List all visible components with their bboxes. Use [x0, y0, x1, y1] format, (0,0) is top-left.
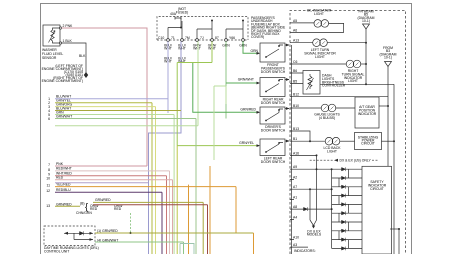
pin wire A9 — [290, 168, 332, 170]
gauge lights — [294, 104, 355, 112]
indicators note — [290, 246, 308, 248]
wire row7 PNK — [55, 165, 147, 167]
wire row10 RED — [55, 180, 173, 254]
under-dash fuse/relay box (dashed) — [157, 17, 248, 41]
svg-text:(4 BULBS): (4 BULBS) — [319, 116, 335, 120]
svg-text:RED/WHT: RED/WHT — [56, 167, 72, 171]
svg-text:13: 13 — [46, 204, 50, 208]
wire GRN to front passenger door switch — [243, 41, 259, 53]
svg-text:7: 7 — [48, 163, 50, 167]
wire GRN/RED dashed drop — [130, 213, 132, 233]
right rear door switch — [260, 78, 285, 97]
svg-text:40A: 40A — [170, 12, 177, 16]
svg-text:A4: A4 — [293, 216, 297, 220]
svg-text:CHN/GRN: CHN/GRN — [76, 211, 92, 215]
wire row5 GRN — [55, 115, 174, 254]
svg-text:7J: 7J — [200, 36, 204, 40]
svg-text:C6: C6 — [293, 60, 297, 64]
washer fluid level sensor — [43, 25, 62, 46]
pin wire A2 — [290, 188, 332, 190]
svg-text:12: 12 — [46, 189, 50, 193]
svg-text:71: 71 — [171, 36, 175, 40]
svg-text:BLK: BLK — [79, 54, 86, 58]
wire lavender branch — [55, 182, 149, 184]
wire PNK from sensor pin 2 — [62, 28, 147, 166]
svg-text:DX & EX (US) ONLY: DX & EX (US) ONLY — [340, 159, 372, 163]
svg-text:GRN/RED: GRN/RED — [240, 108, 256, 112]
diode D1 — [80, 231, 84, 235]
wire GRN/YEL to left rear door switch — [177, 41, 259, 145]
svg-text:RED: RED — [114, 207, 122, 211]
svg-text:B13: B13 — [293, 127, 299, 131]
wire ORN/RED branch — [93, 205, 208, 254]
svg-text:10-1): 10-1) — [362, 19, 370, 23]
wire GRN/WHT down to extra row — [197, 41, 199, 125]
wire bus from door switches down left of cluster — [291, 45, 293, 254]
svg-text:C10: C10 — [158, 36, 164, 40]
wire row2 GRN/YEL — [55, 103, 152, 254]
svg-text:GRN/RED: GRN/RED — [95, 198, 111, 202]
label DX & EX (US) only — [310, 159, 378, 161]
wire ORN vertical mid — [188, 185, 190, 254]
svg-text:FUSED): FUSED) — [176, 10, 189, 14]
svg-text:A9: A9 — [293, 165, 297, 169]
funnel to DX and EX models — [310, 155, 317, 227]
svg-text:CIRCUIT: CIRCUIT — [370, 187, 384, 191]
svg-text:8: 8 — [48, 168, 50, 172]
wire safety to bus — [390, 228, 399, 230]
wire row3 GRN/ORG — [55, 107, 156, 254]
svg-text:LIGHT: LIGHT — [314, 12, 324, 16]
front passenger's door switch — [260, 43, 285, 62]
svg-text:DOOR SWITCH: DOOR SWITCH — [261, 101, 286, 105]
diode array bus — [331, 169, 333, 248]
svg-text:B5: B5 — [293, 80, 297, 84]
wire GRN box bottom — [180, 244, 194, 254]
wire row12 RED/BLU — [55, 192, 162, 254]
svg-text:10: 10 — [46, 177, 50, 181]
wire BLU/WHT conn 71 down to row 1 — [167, 41, 169, 113]
svg-text:PNK: PNK — [56, 162, 64, 166]
svg-text:WHT: WHT — [178, 47, 186, 51]
svg-text:SENSOR: SENSOR — [42, 56, 57, 60]
wire GRN/WHT from DRL pin 4 — [95, 242, 184, 254]
pin wire A7 with diode — [290, 208, 332, 210]
A/T gear position indicator — [355, 97, 379, 128]
cluster pin stubs — [290, 23, 294, 141]
svg-text:LIGHT: LIGHT — [348, 79, 358, 83]
wire from A/T gear box right — [379, 105, 388, 107]
svg-text:INDICATOR: INDICATOR — [358, 112, 377, 116]
svg-text:MODELS: MODELS — [307, 233, 322, 237]
svg-text:GRN/YEL: GRN/YEL — [239, 141, 254, 145]
driver's door switch — [260, 107, 285, 124]
svg-text:A1: A1 — [293, 196, 297, 200]
svg-text:A10: A10 — [293, 236, 299, 240]
wire from FR BEAM triangle — [365, 29, 367, 84]
wire GRN/RED to driver door switch — [193, 63, 259, 113]
safety indicator circuit — [362, 166, 392, 254]
wire ORN vertical mid2 — [209, 166, 211, 254]
svg-text:Y66: Y66 — [229, 36, 235, 40]
svg-text:B1: B1 — [293, 137, 297, 141]
svg-text:GRN: GRN — [250, 49, 258, 53]
wire row8 RED/WHT — [55, 171, 170, 254]
splice S105 / ground G101 diamond — [84, 72, 88, 78]
wire GRN to right rear door switch — [226, 82, 259, 84]
svg-text:A8: A8 — [293, 205, 297, 209]
wire GRN/YEL branch down — [176, 146, 178, 254]
svg-text:10-1): 10-1) — [384, 56, 392, 60]
svg-text:RED/BLU: RED/BLU — [56, 188, 71, 192]
fuse box internal wires — [168, 18, 243, 39]
svg-text:DOOR SWITCH: DOOR SWITCH — [261, 128, 286, 132]
svg-text:A2: A2 — [293, 176, 297, 180]
svg-text:LIGHT: LIGHT — [315, 55, 325, 59]
svg-text:6: 6 — [48, 117, 50, 121]
left rear door switch — [260, 139, 285, 156]
svg-text:1 BLK: 1 BLK — [63, 39, 73, 43]
svg-text:B6: B6 — [293, 69, 297, 73]
right turn signal indicator light — [294, 60, 366, 68]
svg-text:INDICATORS:: INDICATORS: — [294, 249, 316, 253]
svg-text:GRN/RED: GRN/RED — [56, 202, 72, 206]
left turn signal indicator light — [294, 39, 366, 47]
lcd backlight — [294, 137, 355, 145]
wire row9 WHT/RED — [55, 176, 167, 254]
dash lights brightness controller — [294, 71, 394, 95]
svg-text:87: 87 — [215, 36, 219, 40]
svg-text:CONTROL UNIT: CONTROL UNIT — [44, 249, 69, 253]
svg-text:ENGINE COMPARTMENT): ENGINE COMPARTMENT) — [42, 79, 83, 83]
wire GRN/RED from DRL pin 1 — [95, 232, 253, 234]
wire GRN down to row 6 — [225, 41, 227, 118]
lamp filaments — [315, 22, 359, 143]
svg-text:A6: A6 — [293, 28, 297, 32]
diode rows D1-D10 — [332, 169, 362, 248]
wire row4 BLU/WHT — [55, 110, 181, 112]
wire row11 YEL/RED — [55, 187, 254, 254]
wire BLK from sensor pin 1 — [62, 43, 86, 74]
wire GRN mid vertical — [214, 86, 226, 160]
svg-text:DOOR SWITCH: DOOR SWITCH — [261, 160, 286, 164]
connector pins on fuse box — [167, 39, 245, 42]
svg-text:GRN/WHT: GRN/WHT — [238, 78, 254, 82]
svg-text:A13: A13 — [293, 39, 299, 43]
wire row1 BLU/WHT — [55, 98, 168, 100]
pin wire A15 — [290, 154, 317, 156]
svg-text:COVER): COVER) — [251, 35, 264, 39]
svg-text:CONTROLLER: CONTROLLER — [322, 84, 346, 88]
svg-text:(B): (B) — [80, 201, 85, 205]
pin stubs lower — [290, 180, 294, 240]
wire extra GRN — [55, 125, 198, 127]
wire from stabilizing box right — [382, 140, 395, 142]
bus wire v394 — [393, 84, 395, 254]
wire BLU/WHT conn 7M down staircase — [149, 41, 182, 254]
svg-text:B12: B12 — [293, 93, 299, 97]
svg-text:DOOR SWITCH: DOOR SWITCH — [261, 70, 286, 74]
svg-text:A3: A3 — [293, 243, 297, 247]
wire pin B13 to lcd — [294, 131, 310, 141]
daytime running lights (DRL) control unit — [44, 226, 95, 246]
wire row6 GRN/WHT — [55, 119, 196, 254]
svg-text:7M: 7M — [185, 36, 190, 40]
svg-text:A7: A7 — [293, 185, 297, 189]
svg-text:A5: A5 — [293, 19, 297, 23]
svg-text:A16: A16 — [293, 151, 299, 155]
svg-text:11: 11 — [46, 184, 50, 188]
svg-text:WHT: WHT — [178, 60, 186, 64]
stabilizing power circuit — [355, 133, 382, 150]
svg-text:B10: B10 — [293, 104, 299, 108]
fuse F1 — [175, 17, 181, 20]
wire pin B12 long — [294, 96, 388, 98]
gauge assembly (instrument cluster) dashed box — [290, 11, 406, 254]
svg-text:LIGHT: LIGHT — [327, 149, 337, 153]
svg-text:2 PNK: 2 PNK — [63, 24, 74, 28]
svg-text:WHT: WHT — [193, 47, 201, 51]
svg-text:CIRCUIT: CIRCUIT — [361, 142, 375, 146]
svg-text:RED: RED — [56, 176, 64, 180]
wire from FROM triangle down — [387, 67, 389, 167]
svg-text:(1) GRN/RED: (1) GRN/RED — [97, 229, 118, 233]
bus wire v399 — [398, 229, 400, 254]
